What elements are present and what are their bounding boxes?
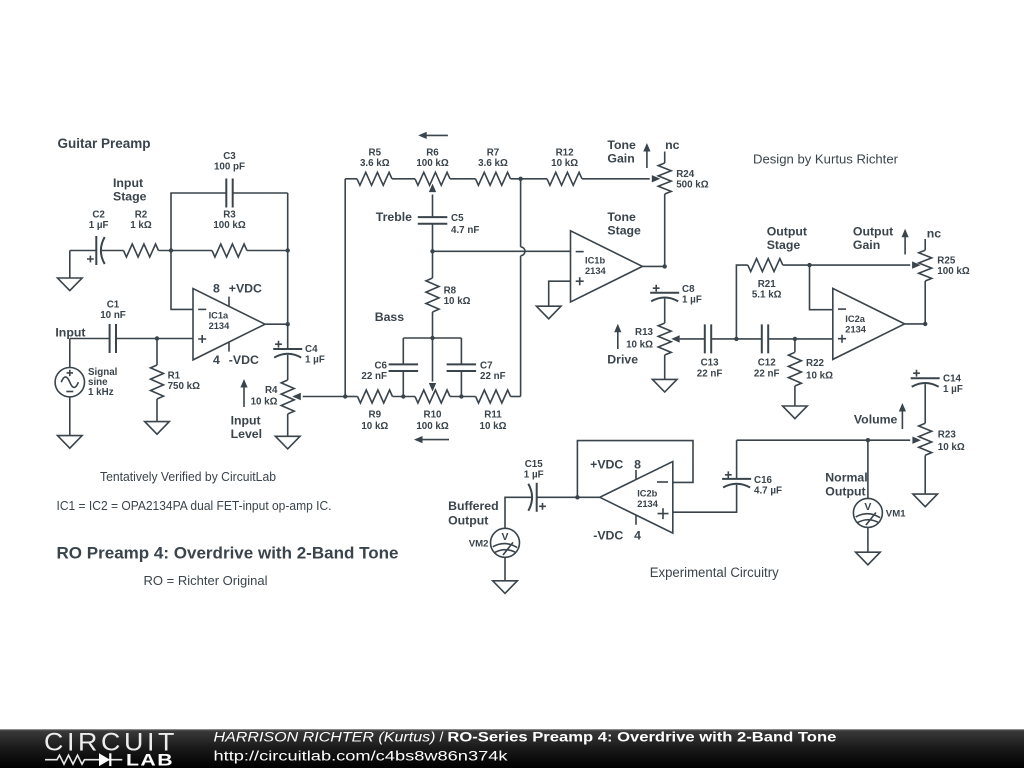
svg-text:8: 8 [213,282,220,296]
wire R7-to-R12 [511,178,548,180]
svg-text:1 µF: 1 µF [305,355,325,366]
wire C16-to-volume-wire [736,440,738,479]
wire IC1b plus to ground [549,281,571,306]
svg-text:Output: Output [853,225,893,239]
wire C15-to-VM2 [505,497,531,528]
svg-text:IC1b: IC1b [585,255,605,265]
svg-text:10 kΩ: 10 kΩ [361,421,388,432]
wiper of R25 [912,261,921,268]
wire C4-to-R4 [287,355,289,380]
wire R9-to-R10 [393,396,416,398]
resistor R22 [788,352,833,386]
wire C7 bottom stub [460,371,462,397]
wire source-to-ground [69,397,71,436]
footer bar [0,729,1024,768]
svg-text:1 µF: 1 µF [89,220,109,231]
resistor R1 [151,339,201,400]
wire C14-to-R23 [924,384,926,423]
wiper of R10 [429,338,436,392]
op-amp IC1b [571,231,643,302]
svg-text:22 nF: 22 nF [754,368,780,379]
svg-text:Bass: Bass [375,310,405,324]
op-amp IC2b mirrored [600,462,673,534]
CircuitLab logo resistor+diode glyph [45,753,122,766]
svg-text:5.1 kΩ: 5.1 kΩ [752,290,782,301]
wire IC2b output [537,496,600,498]
wire R10-to-R11 [450,396,476,398]
wire R23-to-ground [924,455,926,494]
svg-text:Design by Kurtus Richter: Design by Kurtus Richter [753,153,898,167]
wiper of R23 [912,437,921,444]
svg-text:10 nF: 10 nF [100,310,126,321]
wire treble-to-IC1b [433,250,571,252]
svg-text:C4: C4 [305,344,318,355]
svg-text:22 nF: 22 nF [480,371,506,382]
node treble junction [430,249,434,253]
wire minus-input [171,251,193,310]
svg-text:R3: R3 [223,210,236,221]
subtitle RO = Richter Original [144,574,268,588]
pin 4 -VDC label [213,353,259,367]
capacitor C16 [722,471,782,496]
ground at VM1 [856,552,881,565]
wire C6/C7 top bar [403,337,461,339]
wire right feedback bus [287,193,289,349]
ground at R13 [652,379,677,392]
wire C12-to-plus [768,338,833,340]
annotation Guitar Preamp [58,136,151,151]
svg-text:10 kΩ: 10 kΩ [806,371,833,382]
svg-text:Drive: Drive [607,353,638,367]
potentiometer R6 [415,148,450,186]
svg-text:R12: R12 [556,148,575,159]
svg-text:2134: 2134 [845,325,867,335]
potentiometer R24 [658,163,709,194]
svg-text:1 µF: 1 µF [682,295,702,306]
svg-text:R13: R13 [635,327,654,338]
wire R21-to-R25 [783,264,910,266]
svg-text:Output: Output [767,225,807,239]
svg-text:10 kΩ: 10 kΩ [938,442,965,453]
wire R11-to-bus [511,396,521,398]
node top row / right bus [518,177,522,181]
annotation Normal Output [825,471,867,499]
svg-text:10 kΩ: 10 kΩ [444,296,471,307]
svg-text:IC1 = IC2 = OPA2134PA dual FET: IC1 = IC2 = OPA2134PA dual FET-input op-… [57,499,332,513]
svg-text:Input: Input [231,414,261,428]
wire feedback left+top [171,193,226,251]
svg-text:Experimental Circuitry: Experimental Circuitry [650,565,779,580]
capacitor C12 [754,324,780,379]
svg-text:V: V [864,501,871,513]
wire C13-to-C12 [711,338,762,340]
arrow marker below R10 [414,436,449,443]
IC note text [57,499,332,513]
ground at R23 [913,494,938,507]
svg-text:22 nF: 22 nF [697,368,723,379]
node at R3 right [286,248,290,252]
pin 4 stub IC2b [635,515,637,525]
svg-text:nc: nc [665,138,680,152]
svg-text:22 nF: 22 nF [361,371,387,382]
ground at VM2 [493,581,518,594]
annotation Bass [375,310,405,324]
footer title line [214,730,837,746]
svg-text:R2: R2 [135,210,148,221]
annotation Treble [376,210,412,224]
node C12/R22 top [793,337,797,341]
svg-text:Gain: Gain [853,238,880,252]
design by text [753,153,898,167]
annotation nc at R25 [927,227,942,241]
svg-text:10 kΩ: 10 kΩ [480,421,507,432]
svg-text:10 kΩ: 10 kΩ [251,397,278,408]
node feedback IC2a [807,263,811,267]
ground at IC1b [536,306,561,319]
svg-text:http://circuitlab.com/c4bs8w86: http://circuitlab.com/c4bs8w86n374k [214,749,509,765]
node R9/C6 [401,394,405,398]
annotation Output Stage [767,225,807,253]
potentiometer R23 [919,423,965,455]
wire R12-to-R24 [582,178,650,180]
annotation Tone Stage [607,210,641,238]
wire R6-to-R7 [450,178,476,180]
pin 8 stub IC2b [635,470,637,480]
wire C6 top stub [402,338,404,365]
capacitor C8 [650,284,702,306]
title RO Preamp 4 [57,545,399,563]
ground at R1 [145,422,170,435]
resistor R2 [124,210,159,258]
potentiometer R10 [415,390,450,432]
svg-text:C3: C3 [223,151,236,162]
svg-text:C1: C1 [107,300,120,311]
svg-text:Tentatively Verified by Circui: Tentatively Verified by CircuitLab [100,470,276,484]
wire VM1-to-ground [867,527,869,552]
wire nc stub R25 [924,239,926,250]
svg-text:C2: C2 [92,210,105,221]
capacitor C14 [911,370,963,395]
wire IC1a-output [265,323,288,325]
resistor R12 [547,148,582,186]
ground at source [58,436,83,449]
svg-text:Stage: Stage [607,224,641,238]
capacitor C13 [697,324,723,379]
svg-text:8: 8 [634,458,641,472]
svg-text:1 µF: 1 µF [943,384,963,395]
pin 4 stub IC1a [228,342,230,352]
op-amp IC1a [193,289,265,360]
annotation nc at R24 [665,138,680,152]
pin 8 stub IC1a [228,297,230,307]
svg-text:R9: R9 [369,409,382,420]
capacitor C2 [87,210,109,266]
svg-text:Treble: Treble [376,210,412,224]
CircuitLab logo CIRCUIT [44,729,178,757]
wire R25-to-output-node [924,281,926,324]
svg-text:Level: Level [231,427,262,441]
svg-text:RO Preamp 4: Overdrive with 2-: RO Preamp 4: Overdrive with 2-Band Tone [57,545,399,563]
svg-text:R23: R23 [938,429,957,440]
svg-text:R25: R25 [937,256,956,267]
node IC2b output [575,495,579,499]
wire R22 stub [794,339,796,352]
svg-text:HARRISON RICHTER (Kurtus) / RO: HARRISON RICHTER (Kurtus) / RO-Series Pr… [214,730,837,746]
capacitor C5 [418,213,480,236]
resistor R11 [476,390,511,432]
resistor R8 [426,251,471,312]
svg-text:4: 4 [634,529,641,543]
wire C6 bottom stub [402,371,404,397]
svg-text:4: 4 [213,353,220,367]
svg-text:+VDC: +VDC [229,282,262,296]
svg-text:R10: R10 [424,409,443,420]
svg-text:Buffered: Buffered [448,499,499,513]
capacitor C6 [361,361,418,383]
source V1 signal sine [55,367,118,398]
svg-text:RO = Richter Original: RO = Richter Original [144,574,268,588]
svg-text:500 kΩ: 500 kΩ [676,180,709,191]
annotation Volume with arrow [854,403,906,429]
wire left bus [344,179,346,397]
wire R3-to-right-bus [247,250,288,252]
node IC1b output [663,264,667,268]
capacitor C7 [447,361,506,383]
svg-text:4.7 nF: 4.7 nF [451,225,479,236]
ground at C2 left [58,251,83,291]
capacitor C15 [524,459,546,512]
svg-text:Input: Input [55,326,85,340]
svg-text:+VDC: +VDC [590,458,623,472]
wire bus-to-R9 [345,396,357,398]
wire nc stub R24 [664,152,666,164]
wire bus-to-R5 [345,178,357,180]
potentiometer R13 [626,323,671,355]
svg-text:-VDC: -VDC [593,529,623,543]
svg-text:C14: C14 [943,374,962,385]
svg-text:1 kΩ: 1 kΩ [130,220,152,231]
svg-text:Guitar Preamp: Guitar Preamp [58,136,151,151]
wire R4-to-ground [287,414,289,436]
resistor R9 [358,390,393,432]
annotation Buffered Output [448,499,499,528]
node at R1 top [155,336,159,340]
svg-text:R5: R5 [369,148,382,159]
svg-text:1 µF: 1 µF [524,470,544,481]
annotation Tone Gain with arrow [607,138,650,168]
svg-text:R7: R7 [487,148,500,159]
wire C8-to-R13 [664,299,666,324]
voltmeter VM1 [853,498,906,527]
wire R22-to-ground [794,386,796,406]
experimental text [650,565,779,580]
annotation Drive with arrow [607,324,638,367]
wiper of R13 [671,335,704,342]
svg-text:R11: R11 [484,409,502,420]
svg-text:Normal: Normal [825,471,867,485]
svg-text:2134: 2134 [585,266,607,276]
svg-text:100 kΩ: 100 kΩ [416,158,449,169]
wire IC2b plus to C16 [673,485,737,512]
wire VM2-to-ground [504,557,506,581]
svg-text:-VDC: -VDC [229,353,259,367]
ground at R22 [783,406,808,419]
svg-text:C7: C7 [480,361,493,372]
potentiometer R4 [251,380,295,414]
svg-text:100 kΩ: 100 kΩ [416,421,449,432]
resistor R3 [212,210,247,258]
resistor R21 [748,259,783,301]
svg-text:VM1: VM1 [886,509,906,520]
CircuitLab logo LAB [126,752,174,768]
svg-text:R24: R24 [676,169,695,180]
footer url line [214,749,509,765]
wire R13-to-ground [664,355,666,379]
capacitor C4 [273,341,325,366]
wire IC2a output [905,323,926,325]
svg-text:R8: R8 [444,285,457,296]
node IC1a output [286,322,290,326]
svg-text:100 kΩ: 100 kΩ [937,266,970,277]
wire R21 riser [736,265,747,339]
svg-text:C6: C6 [374,361,387,372]
wire C3-to-right-bus [233,192,288,194]
svg-text:C15: C15 [525,459,544,470]
svg-text:Stage: Stage [113,190,147,204]
capacitor C1 [100,300,126,353]
svg-text:C13: C13 [701,358,720,369]
wire C5-to-node [432,223,434,251]
wiper of R24 [652,175,661,182]
svg-text:Output: Output [448,514,488,528]
wire C7 top stub [460,338,462,365]
svg-text:Stage: Stage [767,238,801,252]
annotation Input [55,326,85,340]
svg-text:10 kΩ: 10 kΩ [626,340,653,351]
node at R2/R3/feedback [169,248,173,252]
wire R24-to-output-node [664,194,666,266]
svg-text:IC2a: IC2a [845,314,865,324]
svg-text:10 kΩ: 10 kΩ [551,158,578,169]
svg-text:2134: 2134 [209,321,231,331]
wire Input-to-C1 [70,338,110,340]
svg-text:V: V [501,531,508,543]
svg-text:Gain: Gain [607,152,634,166]
svg-text:C12: C12 [758,358,777,369]
node bass junction [430,336,434,340]
svg-text:Input: Input [113,176,143,190]
wiper of R4 [292,393,345,400]
arrow marker above R6 [418,132,448,139]
svg-text:750 kΩ: 750 kΩ [168,381,201,392]
svg-text:R4: R4 [265,385,278,396]
wire source lead [69,339,71,368]
wire R5-to-R6 [392,178,415,180]
svg-text:Output: Output [825,485,865,499]
svg-text:Tone: Tone [607,210,636,224]
svg-text:R21: R21 [758,279,777,290]
svg-text:R6: R6 [426,148,439,159]
svg-text:1 kHz: 1 kHz [88,387,114,398]
wire right bus upper [520,179,522,247]
pin 4 -VDC label IC2b [593,529,641,543]
svg-text:IC1a: IC1a [209,310,229,320]
svg-text:C5: C5 [451,213,464,224]
svg-text:C16: C16 [754,475,773,486]
wiper of R6 [429,184,436,218]
voltmeter VM2 [469,528,520,557]
wire IC2a minus [810,265,833,310]
capacitor C3 [214,151,245,208]
node R10/C7 [459,394,463,398]
wire R2-to-R3 [159,250,213,252]
annotation Input Stage [113,176,147,204]
wire input-to-C2 [70,250,97,252]
verified text [100,470,276,484]
svg-text:nc: nc [927,227,942,241]
wire C2-to-R2 [102,250,124,252]
svg-text:R1: R1 [168,371,181,382]
svg-text:Tone: Tone [607,138,636,152]
node VM1 tap [866,438,870,442]
svg-text:LAB: LAB [126,752,174,768]
svg-text:IC2b: IC2b [637,489,657,499]
svg-text:2134: 2134 [637,499,659,509]
wire VM1 lead [867,440,869,498]
wire IC1b output [642,265,664,267]
svg-text:4.7 µF: 4.7 µF [754,486,782,497]
pin 8 +VDC label IC2b [590,458,641,472]
annotation Output Gain with arrow [853,225,909,255]
wire right bus lower [520,256,522,397]
svg-text:VM2: VM2 [469,538,489,549]
pin 8 +VDC label [213,282,262,296]
resistor R7 [476,148,511,186]
svg-text:100 kΩ: 100 kΩ [213,220,246,231]
svg-text:Volume: Volume [854,413,898,427]
svg-text:C8: C8 [682,284,695,295]
wire C1-to-plus-input [116,338,193,340]
node left bus / bass row [343,394,347,398]
ground at R4 [275,436,300,449]
wire IC2b feedback [577,441,693,498]
wire hop over treble wire [521,247,525,256]
resistor R5 [357,148,392,186]
wire R8-to-bass-node [432,312,434,338]
node IC2a output [923,322,927,326]
annotation Input Level with arrow [231,379,262,441]
wire volume wire [737,439,911,441]
node C13/R21 riser [734,337,738,341]
potentiometer R25 [919,250,970,281]
wire R1-to-ground [156,399,158,422]
svg-text:3.6 kΩ: 3.6 kΩ [478,158,508,169]
svg-text:3.6 kΩ: 3.6 kΩ [360,158,390,169]
op-amp IC2a [833,288,905,359]
svg-text:R22: R22 [806,358,825,369]
svg-text:100 pF: 100 pF [214,162,245,173]
